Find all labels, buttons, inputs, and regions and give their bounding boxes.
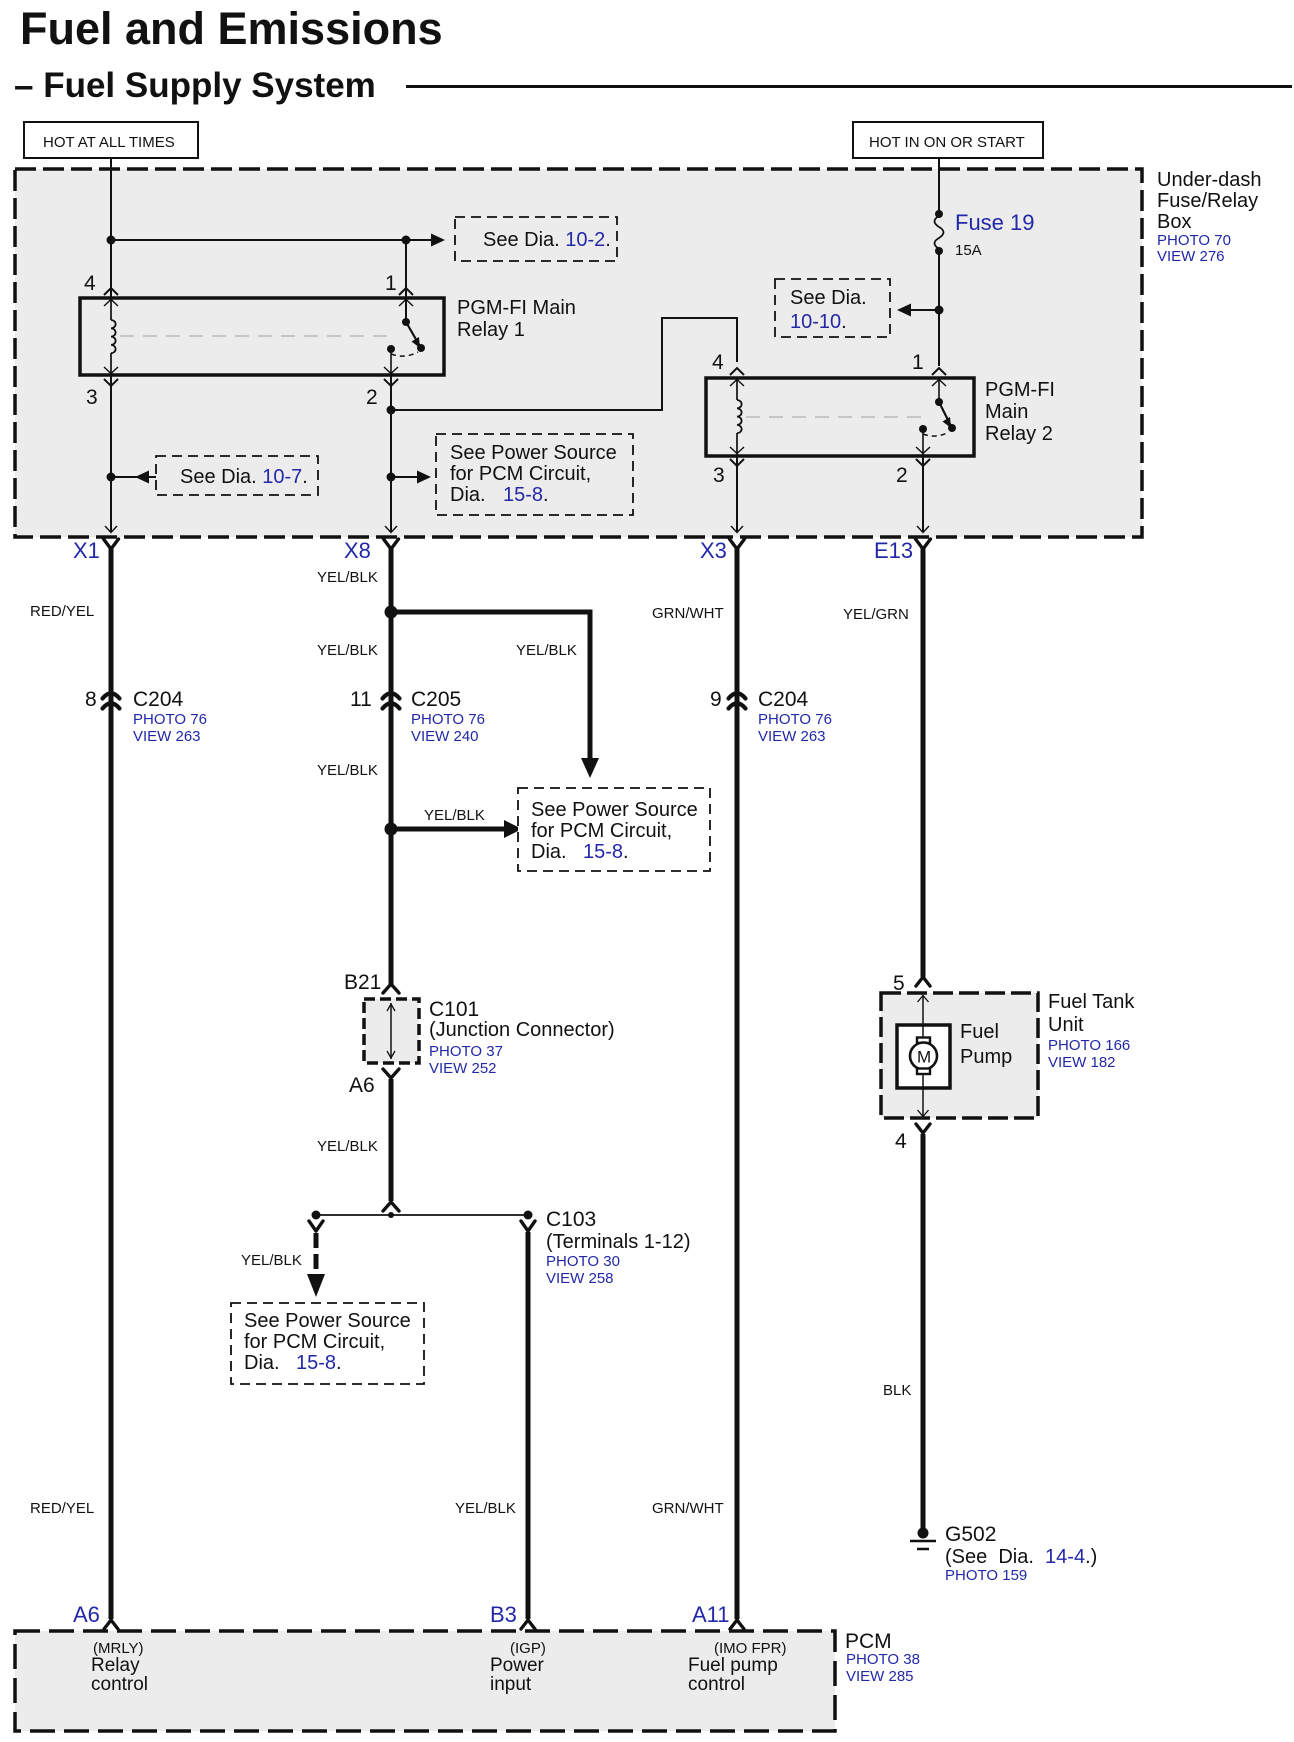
pin 3 relay2 <box>713 459 744 487</box>
note See Power Source top <box>436 434 633 515</box>
svg-text:for PCM Circuit,: for PCM Circuit, <box>450 463 591 485</box>
svg-text:PHOTO 37: PHOTO 37 <box>429 1043 503 1060</box>
pin 2 relay2 <box>896 459 930 487</box>
svg-text:Fuse 19: Fuse 19 <box>955 210 1035 235</box>
svg-text:VIEW 276: VIEW 276 <box>1157 248 1225 265</box>
node A6 connector start <box>383 1069 399 1078</box>
svg-text:VIEW 240: VIEW 240 <box>411 728 479 745</box>
svg-text:for PCM Circuit,: for PCM Circuit, <box>531 820 672 842</box>
svg-text:15A: 15A <box>955 242 982 259</box>
wire hot-at-all-times down to relay1 pin4 <box>110 158 112 298</box>
note See Dia. 10-2. <box>455 217 617 261</box>
wire arrow to see dia 10-7 <box>111 471 156 484</box>
svg-text:VIEW 252: VIEW 252 <box>429 1060 497 1077</box>
svg-text:(Junction Connector): (Junction Connector) <box>429 1019 615 1041</box>
relay U2 PGM-FI Main Relay 2 <box>706 378 974 456</box>
svg-text:See Power Source: See Power Source <box>450 442 617 464</box>
fuse F19 wire from hot box <box>938 158 940 214</box>
note Under-dash Fuse/Relay Box <box>1157 169 1262 265</box>
node junction on X1 wire <box>107 236 116 245</box>
svg-text:YEL/BLK: YEL/BLK <box>424 807 485 824</box>
svg-text:GRN/WHT: GRN/WHT <box>652 1500 724 1517</box>
svg-text:PHOTO 166: PHOTO 166 <box>1048 1037 1130 1054</box>
pin 1 relay1 <box>385 272 413 306</box>
pin 3 relay1 <box>86 379 118 409</box>
svg-text:A6: A6 <box>73 1602 100 1627</box>
pin 2 relay1 <box>366 379 398 409</box>
svg-text:RED/YEL: RED/YEL <box>30 1500 94 1517</box>
label HOT IN ON OR START <box>853 122 1043 158</box>
svg-text:Power: Power <box>490 1655 545 1676</box>
wire B3 trunk YEL/BLK <box>526 1232 531 1619</box>
svg-text:Fuel Tank: Fuel Tank <box>1048 991 1135 1013</box>
note See Dia. 10-10. <box>775 279 890 337</box>
wire relay1 pin2 down <box>390 375 392 532</box>
label Fuse 19 15A <box>955 210 1035 259</box>
svg-text:VIEW 263: VIEW 263 <box>133 728 201 745</box>
connector C204 pin 8 on X1 <box>85 688 207 745</box>
svg-text:PHOTO 76: PHOTO 76 <box>411 711 485 728</box>
node B21 connector end <box>383 984 399 993</box>
svg-text:VIEW 263: VIEW 263 <box>758 728 826 745</box>
wire branch arrow to power source mid <box>391 820 522 838</box>
wire route relay1 pin2 to relay2 pin4 <box>391 318 737 410</box>
wire dashed stub to power source bottom <box>307 1233 325 1297</box>
node left chevron <box>309 1221 323 1231</box>
svg-text:3: 3 <box>86 386 98 409</box>
svg-text:(See Dia. 14-4.): (See Dia. 14-4.) <box>945 1546 1097 1568</box>
PCM box <box>15 1631 835 1731</box>
wire horizontal to see dia 10-2 <box>111 234 445 247</box>
svg-text:See Power Source: See Power Source <box>531 799 698 821</box>
note See Power Source bottom <box>231 1303 424 1384</box>
wire relay2 pin3 to X3 exit <box>736 456 738 532</box>
wire fuse down to relay2 pin1 <box>938 251 940 366</box>
svg-text:11: 11 <box>350 688 372 711</box>
label C101 (Junction Connector) <box>429 998 615 1077</box>
svg-text:X1: X1 <box>73 538 100 563</box>
label G502 <box>945 1523 1097 1584</box>
svg-text:PCM: PCM <box>845 1630 892 1653</box>
wire X1 trunk RED/YEL <box>109 548 114 1619</box>
wire inside fuel tank bottom <box>918 1088 929 1117</box>
svg-text:10-10.: 10-10. <box>790 311 847 333</box>
dashed link coil to switch relay2 <box>746 416 928 418</box>
wire arrow to power source note <box>391 471 431 484</box>
svg-text:YEL/BLK: YEL/BLK <box>455 1500 516 1517</box>
svg-text:Fuel pump: Fuel pump <box>688 1655 778 1676</box>
node junction relay1 pin2 <box>387 406 396 415</box>
svg-text:C204: C204 <box>758 688 809 711</box>
arrow E13 wire into border <box>917 526 929 533</box>
svg-text:4: 4 <box>712 351 724 374</box>
svg-text:See Power Source: See Power Source <box>244 1310 411 1332</box>
svg-text:Relay 1: Relay 1 <box>457 319 525 341</box>
node right chevron C103 <box>521 1221 535 1231</box>
svg-text:GRN/WHT: GRN/WHT <box>652 605 724 622</box>
svg-text:YEL/BLK: YEL/BLK <box>516 642 577 659</box>
svg-text:HOT IN ON OR START: HOT IN ON OR START <box>869 134 1025 151</box>
svg-text:VIEW 182: VIEW 182 <box>1048 1054 1116 1071</box>
svg-text:See Dia. 10-7.: See Dia. 10-7. <box>180 466 308 488</box>
label IMO FPR fuel pump control <box>688 1640 787 1695</box>
wire branch to power source arrow down <box>391 612 599 778</box>
svg-text:See Dia.: See Dia. <box>790 287 867 309</box>
motor M1 fuel pump <box>910 1025 937 1088</box>
svg-text:for PCM Circuit,: for PCM Circuit, <box>244 1331 385 1353</box>
coil relay1 <box>104 298 118 375</box>
svg-text:PHOTO 76: PHOTO 76 <box>133 711 207 728</box>
node junction see dia 10-7 <box>107 473 116 482</box>
node right junction C103 <box>524 1211 533 1220</box>
connector C205 pin 11 on X8 <box>350 688 485 745</box>
svg-text:E13: E13 <box>874 538 913 563</box>
fuse F19 symbol <box>935 210 944 255</box>
pin 4 relay2 <box>712 351 744 386</box>
pin 1 relay2 <box>912 351 946 386</box>
node junction power source arrow <box>387 473 396 482</box>
svg-text:A6: A6 <box>349 1074 375 1097</box>
arrow X1 wire into border <box>105 526 117 533</box>
node B3 pcm chevron <box>521 1620 535 1629</box>
ground G502 <box>910 1528 936 1550</box>
svg-text:YEL/BLK: YEL/BLK <box>317 642 378 659</box>
svg-text:15-8.: 15-8. <box>296 1352 342 1374</box>
svg-text:YEL/BLK: YEL/BLK <box>317 569 378 586</box>
svg-text:Box: Box <box>1157 211 1191 233</box>
svg-text:BLK: BLK <box>883 1382 911 1399</box>
wire C103 horizontal bus <box>316 1214 528 1216</box>
svg-text:B21: B21 <box>344 971 381 994</box>
wire BLK to ground <box>921 1134 926 1528</box>
svg-text:PHOTO 70: PHOTO 70 <box>1157 232 1231 249</box>
wire inside C101 <box>387 1003 395 1059</box>
svg-text:Unit: Unit <box>1048 1014 1084 1036</box>
node X1 exit connector <box>73 538 119 563</box>
svg-text:Dia.: Dia. <box>531 841 567 863</box>
svg-text:HOT AT ALL TIMES: HOT AT ALL TIMES <box>43 134 175 151</box>
node E13 exit connector <box>874 538 931 563</box>
fuel pump box <box>897 1025 950 1088</box>
label PCM <box>845 1630 920 1685</box>
connector C101 junction connector box <box>364 999 419 1063</box>
svg-text:Fuel and Emissions: Fuel and Emissions <box>20 3 443 54</box>
svg-text:X3: X3 <box>700 538 727 563</box>
svg-text:PGM-FI Main: PGM-FI Main <box>457 297 576 319</box>
svg-text:4: 4 <box>84 272 96 295</box>
node junction X8 branch <box>385 606 398 619</box>
svg-text:X8: X8 <box>344 538 371 563</box>
svg-text:C205: C205 <box>411 688 461 711</box>
label PGM-FI Main Relay 1 <box>457 297 576 341</box>
svg-text:B3: B3 <box>490 1602 517 1627</box>
node junction above relay1 pin1 <box>402 236 411 245</box>
svg-text:See Dia. 10-2.: See Dia. 10-2. <box>483 229 611 251</box>
svg-text:8: 8 <box>85 688 97 711</box>
svg-text:Under-dash: Under-dash <box>1157 169 1262 191</box>
svg-text:YEL/GRN: YEL/GRN <box>843 606 909 623</box>
svg-text:– Fuel Supply System: – Fuel Supply System <box>14 66 376 105</box>
node X3 exit connector <box>700 538 745 563</box>
svg-text:(Terminals 1-12): (Terminals 1-12) <box>546 1231 690 1253</box>
svg-text:C101: C101 <box>429 998 479 1021</box>
svg-text:RED/YEL: RED/YEL <box>30 603 94 620</box>
wire A6 down YEL/BLK <box>389 1079 394 1201</box>
svg-text:PHOTO 76: PHOTO 76 <box>758 711 832 728</box>
label MRLY relay control <box>91 1640 148 1695</box>
svg-text:Main: Main <box>985 401 1028 423</box>
connector C204 pin 9 on X3 <box>710 688 832 745</box>
svg-text:Dia.: Dia. <box>450 484 486 506</box>
arrow X3 wire into border <box>731 526 743 533</box>
node left junction <box>312 1211 321 1220</box>
svg-text:Relay: Relay <box>91 1655 140 1676</box>
wire X3 trunk GRN/WHT <box>735 548 740 1619</box>
svg-text:PHOTO 30: PHOTO 30 <box>546 1253 620 1270</box>
svg-text:9: 9 <box>710 688 722 711</box>
node small junction center <box>388 1212 394 1218</box>
label HOT AT ALL TIMES <box>24 122 198 158</box>
svg-text:15-8.: 15-8. <box>583 841 629 863</box>
svg-text:PHOTO 159: PHOTO 159 <box>945 1567 1027 1584</box>
wire relay1 pin3 down to X1 exit <box>110 375 112 532</box>
under-dash fuse/relay box <box>15 169 1142 537</box>
relay U1 PGM-FI Main Relay 1 <box>80 298 444 375</box>
svg-text:Dia.: Dia. <box>244 1352 280 1374</box>
svg-text:Pump: Pump <box>960 1046 1012 1068</box>
note See Dia. 10-7. <box>156 456 318 495</box>
label PGM-FI Main Relay 2 <box>985 379 1055 445</box>
svg-text:VIEW 258: VIEW 258 <box>546 1270 614 1287</box>
svg-text:control: control <box>91 1674 148 1695</box>
svg-text:2: 2 <box>896 464 908 487</box>
svg-text:YEL/BLK: YEL/BLK <box>317 762 378 779</box>
svg-text:G502: G502 <box>945 1523 996 1546</box>
pin 4 relay1 <box>84 272 118 306</box>
node A6 pcm chevron <box>104 1620 118 1629</box>
node E13 wire end chevron <box>916 977 930 986</box>
wire down to relay1 pin1 <box>405 240 407 322</box>
node junction see dia 10-10 <box>935 306 944 315</box>
dashed link coil to switch relay1 <box>120 335 395 337</box>
svg-text:control: control <box>688 1674 745 1695</box>
wire E13 trunk YEL/GRN <box>921 548 926 977</box>
svg-text:YEL/BLK: YEL/BLK <box>241 1252 302 1269</box>
svg-text:15-8.: 15-8. <box>503 484 549 506</box>
node A11 pcm chevron <box>730 1620 744 1629</box>
svg-text:1: 1 <box>912 351 924 374</box>
coil relay2 <box>730 378 744 456</box>
arrow X8 wire into border <box>385 526 397 533</box>
label Fuel Pump <box>960 1021 1012 1068</box>
node junction X8 branch 2 <box>385 823 398 836</box>
label Fuel Tank Unit <box>1048 991 1135 1071</box>
header rule <box>406 85 1292 88</box>
svg-text:2: 2 <box>366 386 378 409</box>
svg-text:Relay 2: Relay 2 <box>985 423 1053 445</box>
svg-text:4: 4 <box>895 1130 907 1153</box>
svg-text:Fuel: Fuel <box>960 1021 999 1043</box>
node X8 exit connector <box>344 538 399 563</box>
svg-text:C103: C103 <box>546 1208 596 1231</box>
node A6 wire end chevron <box>383 1202 399 1211</box>
wire X8 trunk YEL/BLK <box>389 548 394 986</box>
svg-text:VIEW 285: VIEW 285 <box>846 1668 914 1685</box>
label C103 (Terminals 1-12) <box>546 1208 690 1287</box>
svg-text:M: M <box>917 1048 931 1067</box>
wire relay2 pin2 to E13 exit <box>922 456 924 532</box>
svg-text:1: 1 <box>385 272 397 295</box>
wire arrow to see dia 10-10 <box>897 304 939 317</box>
switch relay1 <box>384 318 425 375</box>
wire inside fuel tank top <box>918 995 929 1025</box>
note See Power Source mid <box>518 788 710 871</box>
svg-text:Fuse/Relay: Fuse/Relay <box>1157 190 1258 212</box>
node fuel tank pin4 chevron <box>916 1124 930 1133</box>
svg-text:PGM-FI: PGM-FI <box>985 379 1055 401</box>
svg-text:YEL/BLK: YEL/BLK <box>317 1138 378 1155</box>
switch relay2 <box>916 378 956 456</box>
label IGP power input <box>490 1640 546 1695</box>
svg-text:input: input <box>490 1674 532 1695</box>
svg-text:C204: C204 <box>133 688 184 711</box>
fuel tank unit box <box>881 993 1038 1118</box>
svg-text:A11: A11 <box>692 1602 730 1627</box>
svg-text:PHOTO 38: PHOTO 38 <box>846 1651 920 1668</box>
svg-text:3: 3 <box>713 464 725 487</box>
